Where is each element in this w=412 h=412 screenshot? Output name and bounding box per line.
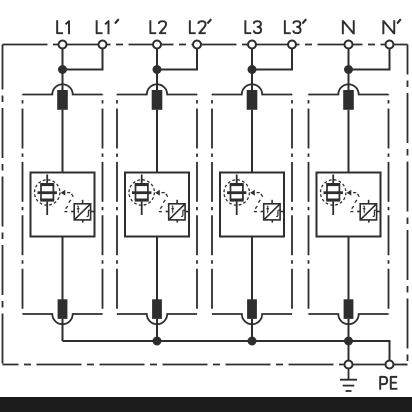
current-curve glyph in trigger box L3 — [276, 210, 279, 216]
trigger electronics box L2 — [166, 200, 189, 223]
dashed trigger line (lightning zigzag) L2 — [159, 193, 168, 212]
label N´ — [383, 20, 394, 34]
wire: module to bottom disconnector N — [348, 237, 350, 301]
triggered spark gap L2: electrodes — [132, 183, 151, 202]
wire: L2 terminal down to junction and disconnector — [156, 49, 158, 91]
thermal disconnector (top) of L2 path — [152, 90, 163, 110]
outer dash-dot box of N protection path — [309, 84, 389, 324]
wire: module to bottom disconnector L3 — [251, 237, 253, 301]
wire: disconnector to PE bus L2 — [156, 319, 158, 341]
wire: module to bottom disconnector L1 — [62, 237, 64, 301]
wire: L3´ terminal branch down and left to junction — [252, 49, 292, 70]
wire: disconnector to arrester module N — [348, 110, 350, 173]
device enclosure (dash-dot outline) — [3, 45, 408, 365]
spark gap L2: dashed circle — [129, 180, 154, 205]
trigger arrow into spark gap L1 — [61, 190, 66, 196]
triggered spark gap N: electrodes — [324, 183, 343, 202]
thermal disconnector (bottom) of L1 path — [58, 299, 68, 319]
terminal L1 — [59, 41, 67, 49]
terminal N — [345, 41, 353, 49]
earth terminal circle — [345, 361, 353, 369]
spark gap N: top/bottom leads — [332, 175, 334, 216]
ground symbol — [340, 369, 357, 392]
wire: disconnector to PE bus L1 — [62, 319, 64, 341]
PE bus wire along bottom — [63, 341, 390, 361]
label L2 — [150, 20, 166, 33]
arrester module box L1 — [31, 173, 95, 237]
trigger arrow into spark gap N — [347, 190, 352, 196]
spark gap L3: top/bottom leads — [236, 175, 238, 216]
wire: solid bottom edge segment to right corner — [394, 364, 408, 366]
arrester module box L3 — [220, 173, 284, 237]
outer dash-dot box of L1 protection path — [23, 84, 103, 324]
impulse glyph in trigger box L3 — [266, 206, 269, 212]
spark gap L1: dashed circle — [35, 180, 60, 205]
trigger arrow into spark gap L2 — [155, 190, 160, 196]
wire: N´ terminal branch down and left to junction — [349, 49, 390, 70]
triggered spark gap L3: electrodes — [227, 183, 246, 202]
trigger electronics box L1 — [71, 200, 94, 223]
thermal disconnector (bottom) of L2 path — [152, 299, 162, 319]
current-curve glyph in trigger box L2 — [181, 210, 184, 216]
wire: L2´ terminal branch down and left to junction — [157, 49, 197, 70]
label PE — [380, 377, 397, 390]
wire: N terminal down to junction and disconnector — [348, 49, 350, 91]
label L3´ — [285, 20, 301, 33]
label L2´ — [190, 20, 206, 33]
terminal L3 — [248, 41, 256, 49]
trigger electronics box N — [357, 200, 380, 223]
terminal L3´ — [288, 41, 296, 49]
current-curve glyph in trigger box L1 — [87, 210, 90, 216]
triggered spark gap L1: electrodes — [38, 183, 57, 202]
wire: disconnector to arrester module L3 — [251, 110, 253, 173]
thermal disconnector (bottom) of L3 path — [247, 299, 257, 319]
thermal disconnector (top) of L1 path — [57, 90, 68, 110]
outer dash-dot box of L2 protection path — [117, 84, 197, 324]
wire: L1´ terminal branch down and left to junction — [63, 49, 103, 70]
impulse glyph in trigger box L2 — [171, 206, 174, 212]
junction node L1 — [58, 65, 67, 74]
outer dash-dot box of L3 protection path — [212, 84, 292, 324]
label L3 — [245, 20, 261, 33]
junction node L3 — [248, 65, 257, 74]
trigger arrow into spark gap L3 — [250, 190, 255, 196]
junction node N — [344, 65, 353, 74]
spark gap L1: top/bottom leads — [46, 175, 48, 216]
terminal L1´ — [99, 41, 107, 49]
junction node L2 — [153, 65, 162, 74]
wire: module to bottom disconnector L2 — [156, 237, 158, 301]
dashed trigger line (lightning zigzag) N — [350, 193, 359, 212]
terminal N´ — [386, 41, 394, 49]
dashed trigger line (lightning zigzag) L3 — [254, 193, 263, 212]
impulse glyph in trigger box N — [363, 206, 366, 212]
dashed trigger line (lightning zigzag) L1 — [64, 193, 73, 212]
arrester module box N — [317, 173, 381, 237]
wire: bus junction down to earth terminal — [348, 341, 350, 361]
label L1 — [57, 20, 69, 34]
terminal L2 — [153, 41, 161, 49]
thermal disconnector (bottom) of N path — [344, 299, 354, 319]
wire: disconnector to arrester module L2 — [156, 110, 158, 173]
junction node N/PE bus — [344, 337, 353, 346]
wire: disconnector to PE bus L3 — [251, 319, 253, 341]
junction node L2/PE bus — [153, 337, 162, 346]
wire: disconnector to arrester module L1 — [62, 110, 64, 173]
wire: L3 terminal down to junction and disconnector — [251, 49, 253, 91]
impulse glyph in trigger box L1 — [77, 206, 80, 212]
spark gap N: dashed circle — [321, 180, 346, 205]
trigger electronics box L3 — [261, 200, 284, 223]
terminal PE — [386, 361, 394, 369]
junction node L3/PE bus — [248, 337, 257, 346]
wire: disconnector to PE bus N — [348, 319, 350, 341]
wire: L1 terminal down to junction and disconnector — [62, 49, 64, 91]
label N — [343, 20, 354, 34]
label L1´ — [97, 20, 109, 34]
terminal L2´ — [193, 41, 201, 49]
thermal disconnector (top) of N path — [343, 90, 354, 110]
thermal disconnector (top) of L3 path — [247, 90, 258, 110]
spark gap L2: top/bottom leads — [141, 175, 143, 216]
bottom black bar — [0, 397, 412, 412]
current-curve glyph in trigger box N — [373, 210, 376, 216]
arrester module box L2 — [125, 173, 189, 237]
spark gap L3: dashed circle — [224, 180, 249, 205]
